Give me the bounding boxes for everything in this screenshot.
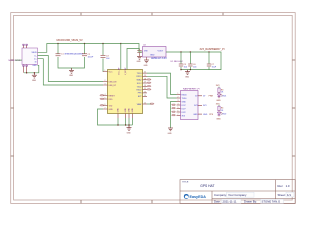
svg-text:GND: GND [69, 75, 74, 77]
svg-text:18: 18 [144, 78, 146, 80]
junction 5v b [84, 43, 85, 44]
svg-text:20: 20 [144, 72, 146, 74]
svg-text:GND: GND [168, 133, 173, 135]
svg-text:1: 1 [105, 70, 106, 72]
svg-text:10uF: 10uF [212, 66, 217, 68]
LED D2 [217, 112, 220, 115]
svg-text:TITLE:: TITLE: [182, 182, 189, 184]
capacitor C1 [56, 54, 61, 56]
ground G7 under J2 [168, 128, 173, 131]
J1 pin names [31, 52, 37, 67]
svg-text:14: 14 [144, 91, 146, 93]
junction bottom a [117, 124, 118, 125]
svg-text:GND: GND [132, 108, 134, 113]
wire U1 VCC pin top 1 [120, 44, 122, 70]
svg-text:Your Company: Your Company [228, 193, 247, 197]
wire U1 RXD1 to J2 [147, 76, 177, 98]
netport arrow J2 IO27 [172, 108, 176, 109]
svg-text:3V3_RASPBERRY_PI: 3V3_RASPBERRY_PI [200, 48, 225, 51]
wire U1 GND loop to bottom [98, 109, 119, 125]
regulator U2 body [143, 47, 167, 58]
J1 shield pins bottom [23, 65, 28, 73]
capacitor C5 [180, 52, 182, 64]
svg-text:3: 3 [178, 100, 179, 102]
svg-text:3V3: 3V3 [182, 115, 185, 117]
junction USB gnd a [26, 72, 27, 73]
svg-text:Sheet:: Sheet: [278, 193, 286, 197]
svg-text:IO22: IO22 [182, 112, 186, 114]
svg-text:GND: GND [129, 108, 131, 113]
EasyEDA logo [184, 194, 206, 199]
U1 right pin stubs [143, 73, 148, 104]
U1 left pin stubs [103, 72, 108, 110]
svg-text:VCC: VCC [109, 71, 114, 73]
J2 body [181, 91, 199, 120]
svg-text:RXD0: RXD0 [182, 94, 187, 96]
svg-text:SCL2: SCL2 [137, 83, 142, 85]
svg-text:GND: GND [32, 65, 37, 67]
svg-text:4: 4 [178, 104, 179, 106]
date row [222, 199, 242, 203]
junction bottom b [125, 124, 126, 125]
J1 left stub wire [15, 59, 22, 61]
netport arrow U1 left TXD [100, 105, 104, 106]
wire U1 TXD1 to J2 [147, 73, 177, 94]
junction 3v3 b [190, 51, 191, 52]
svg-text:1/1: 1/1 [287, 193, 291, 197]
svg-text:USB_DM: USB_DM [109, 81, 117, 83]
svg-text:3V3: 3V3 [203, 105, 206, 107]
svg-text:Company:: Company: [214, 193, 227, 197]
svg-text:100nF: 100nF [88, 56, 94, 58]
svg-text:GND: GND [185, 76, 190, 78]
svg-text:GND: GND [203, 114, 208, 116]
svg-text:GND: GND [109, 109, 114, 111]
netport arrow U1 VBAT [151, 103, 155, 104]
J2 right pin stubs [198, 96, 202, 114]
netport arrow U1 left RESET [100, 95, 104, 96]
U1 body [108, 70, 143, 114]
ground G5 under 3V3 caps [185, 70, 190, 75]
netport arrow U1 right TXD2 [148, 86, 152, 87]
svg-text:Date:: Date: [214, 200, 221, 204]
netport arrow U1 right RXD2 [148, 89, 152, 90]
svg-text:2: 2 [105, 80, 106, 82]
svg-text:TXD: TXD [109, 105, 113, 107]
ground G4 under U2 [144, 60, 149, 63]
svg-text:EasyEDA: EasyEDA [190, 195, 207, 199]
junction 3v3 c [208, 51, 209, 52]
svg-text:IO17: IO17 [182, 105, 186, 107]
capacitor C4 [139, 48, 140, 50]
junction 3v3 gnd b [190, 69, 191, 70]
svg-text:17: 17 [144, 82, 146, 84]
wire U1 VBAT right [147, 103, 151, 105]
wire VBUS to +5V rail [38, 44, 121, 53]
wire USB D+ to U1 [38, 59, 104, 85]
netport arrow J2 IO17 [172, 104, 176, 105]
capacitor C2 [84, 44, 86, 54]
capacitor C3 branch to U1 VCC [102, 44, 104, 56]
capacitor C7 [208, 52, 210, 64]
svg-text:GND: GND [32, 80, 37, 82]
ground G6 under U1 [127, 125, 132, 130]
capacitor C3 [101, 55, 106, 57]
wire 3V3 rail [166, 52, 221, 70]
svg-text:2021-11-11: 2021-11-11 [223, 200, 237, 204]
U1 left pin names [109, 71, 117, 111]
sheet frame outer border [11, 13, 296, 204]
svg-text:TXD2: TXD2 [137, 86, 142, 88]
svg-text:VBAT: VBAT [137, 103, 143, 106]
J2 left pin names [182, 94, 187, 117]
svg-text:1: 1 [178, 93, 179, 95]
svg-text:STONE TAN.G: STONE TAN.G [262, 200, 281, 204]
svg-text:5: 5 [105, 98, 106, 100]
svg-text:3: 3 [105, 84, 106, 86]
wires U1 bottom pins to gnd rail [118, 118, 132, 125]
svg-text:Rev: 1.0: Rev: 1.0 [278, 184, 290, 188]
capacitor C6 [189, 52, 191, 64]
svg-text:3V3: 3V3 [194, 105, 197, 107]
svg-text:6: 6 [105, 104, 106, 106]
junction 3v3 a [180, 51, 181, 52]
svg-text:RXD: RXD [109, 99, 114, 101]
svg-text:GND: GND [125, 108, 127, 113]
svg-text:IO27: IO27 [182, 108, 186, 110]
svg-text:GND: GND [144, 65, 149, 67]
junction bottom c [128, 124, 129, 125]
svg-text:V_BCKP: V_BCKP [125, 67, 127, 75]
J2 right pin names [193, 96, 198, 116]
svg-text:2: 2 [178, 97, 179, 99]
svg-text:4: 4 [105, 94, 106, 96]
svg-text:RASPBERRY_PI: RASPBERRY_PI [183, 87, 200, 90]
junction 5v c [102, 43, 103, 44]
connector J1 body [22, 48, 38, 65]
svg-text:AMS1117-3.3V: AMS1117-3.3V [151, 57, 167, 60]
svg-text:13: 13 [144, 95, 146, 97]
resistor R4 [218, 106, 220, 111]
svg-text:GND: GND [127, 132, 132, 134]
svg-text:RXD2: RXD2 [136, 90, 141, 92]
svg-text:GND: GND [182, 101, 187, 103]
svg-text:7: 7 [105, 108, 106, 110]
svg-text:15: 15 [144, 88, 146, 90]
J2 right net labels [203, 96, 208, 116]
svg-text:PWR: PWR [209, 96, 214, 98]
junction USB gnd b [34, 72, 35, 73]
netport arrow J2 3V3 [172, 115, 176, 116]
capacitor C1 branch [57, 44, 59, 54]
svg-text:MICROUSB_VBUS_5V: MICROUSB_VBUS_5V [57, 39, 83, 42]
netport arrow U1 right SDA2 [148, 79, 152, 80]
ground G2 under C1 C2 [69, 68, 74, 73]
svg-text:6: 6 [178, 111, 179, 113]
title block outline [180, 180, 295, 204]
svg-text:7: 7 [178, 114, 179, 116]
svg-text:TXD0: TXD0 [182, 98, 187, 100]
svg-text:VCC_RF: VCC_RF [119, 67, 121, 75]
svg-text:USB_DP: USB_DP [109, 85, 117, 87]
U1 pin numbers left [105, 70, 106, 110]
ground G1 under J1 [32, 73, 37, 78]
netport arrow U1 left RXD [100, 98, 104, 99]
svg-text:12: 12 [144, 103, 146, 105]
wire USB D- to U1 [38, 56, 104, 82]
junction 3v3 gnd a [180, 69, 181, 70]
svg-text:LED1: LED1 [222, 95, 227, 97]
U1 bottom pin stubs [118, 114, 132, 119]
svg-text:GND: GND [193, 114, 198, 116]
svg-text:SDA2: SDA2 [137, 79, 142, 82]
svg-text:GPS HAT: GPS HAT [200, 184, 214, 188]
svg-text:VIN: VIN [144, 50, 148, 52]
J1 shield pins top [23, 44, 28, 48]
U1 bottom pin names [118, 108, 134, 113]
svg-text:GRM188R61A106KE69: GRM188R61A106KE69 [64, 53, 83, 56]
netport arrow U1 right SCL2 [148, 82, 152, 83]
ground G3 under C4 [137, 56, 142, 59]
svg-text:GND: GND [216, 118, 221, 120]
junction 5v d [120, 43, 121, 44]
svg-text:19: 19 [144, 75, 146, 77]
J2 pin numbers left [178, 93, 179, 116]
svg-text:16: 16 [144, 85, 146, 87]
svg-text:TXD1: TXD1 [137, 73, 142, 75]
U1 right pin names [136, 73, 142, 106]
svg-text:Drawn By:: Drawn By: [244, 200, 257, 204]
svg-text:RESET: RESET [109, 95, 116, 97]
U1 pin numbers right [144, 72, 146, 105]
svg-text:VBUS: VBUS [31, 52, 37, 54]
junction 5v a [57, 43, 58, 44]
svg-text:5: 5 [178, 107, 179, 109]
wire 5V into U2 [121, 44, 143, 53]
resistor R3 [218, 88, 220, 93]
U2 ground pin [146, 57, 148, 60]
wire USB GND loop [24, 65, 39, 73]
netport arrow J2 IO22 [172, 111, 176, 112]
frame tick marks [11, 13, 296, 204]
wire U1 top pin 2 to C4 [127, 49, 139, 70]
LED D1 [217, 94, 220, 97]
J2 left pin stubs [177, 95, 181, 116]
svg-text:GND: GND [118, 108, 120, 113]
sheet cell [286, 192, 294, 197]
svg-text:GND: GND [216, 100, 221, 102]
svg-text:VOUT: VOUT [158, 50, 164, 52]
svg-text:RXD1: RXD1 [136, 76, 141, 78]
svg-text:LED2: LED2 [222, 114, 227, 116]
svg-text:GND: GND [137, 61, 142, 63]
company row [227, 192, 255, 197]
wire J2 GND down [171, 102, 177, 129]
